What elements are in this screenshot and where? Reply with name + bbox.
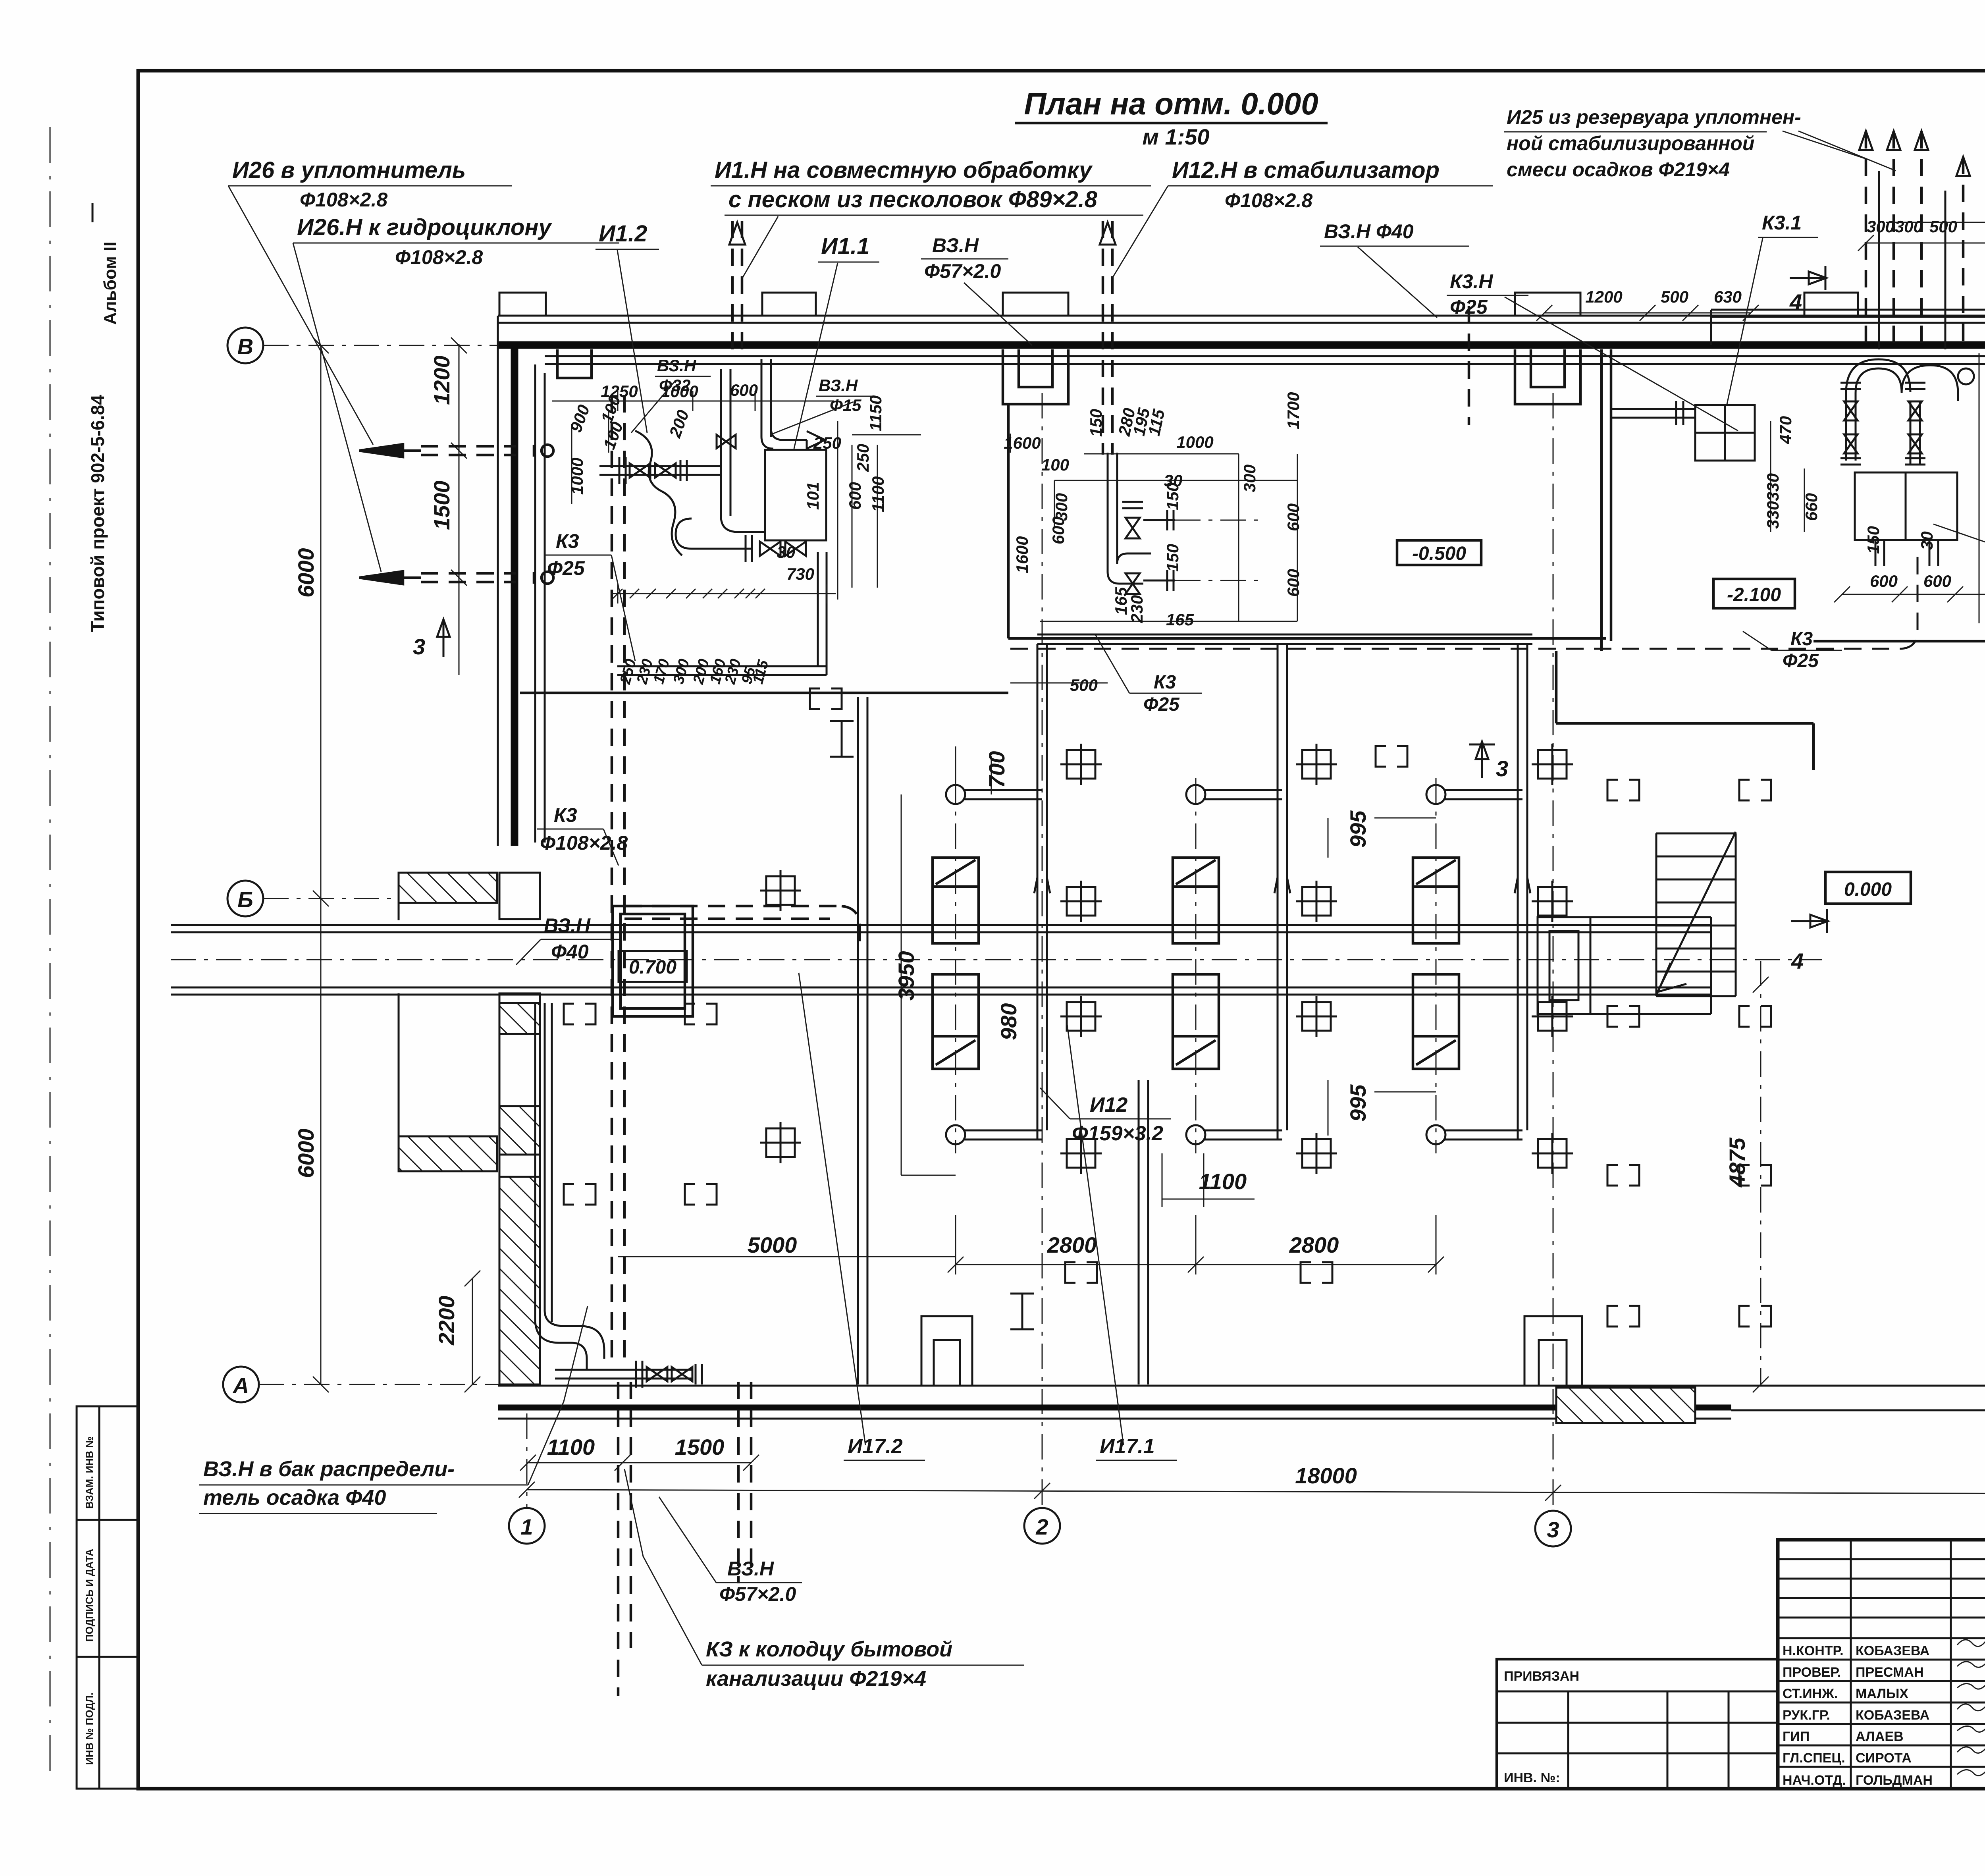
svg-text:500: 500 xyxy=(1929,217,1957,236)
svg-text:3950: 3950 xyxy=(894,951,919,1001)
svg-text:1600: 1600 xyxy=(1004,434,1041,452)
svg-text:101: 101 xyxy=(804,482,822,510)
svg-text:тель осадка Ф40: тель осадка Ф40 xyxy=(203,1486,386,1510)
svg-text:Ф25: Ф25 xyxy=(1450,296,1488,318)
svg-text:2: 2 xyxy=(1035,1514,1048,1539)
svg-text:ИНВ № ПОДЛ.: ИНВ № ПОДЛ. xyxy=(83,1693,95,1765)
svg-text:ВЗ.Н: ВЗ.Н xyxy=(819,376,858,395)
svg-text:600: 600 xyxy=(1284,569,1303,597)
svg-text:А: А xyxy=(232,1373,249,1398)
svg-text:Ф25: Ф25 xyxy=(547,557,585,579)
svg-text:250: 250 xyxy=(813,434,841,452)
svg-text:2800: 2800 xyxy=(1047,1232,1097,1257)
svg-text:ВЗ.Н: ВЗ.Н xyxy=(727,1558,774,1580)
svg-text:СИРОТА: СИРОТА xyxy=(1856,1751,1912,1766)
svg-text:Н.КОНТР.: Н.КОНТР. xyxy=(1783,1643,1844,1658)
svg-text:ВЗ.Н: ВЗ.Н xyxy=(932,234,979,256)
svg-text:500: 500 xyxy=(1661,287,1688,306)
svg-text:1100: 1100 xyxy=(547,1434,595,1460)
svg-text:300: 300 xyxy=(670,657,693,686)
svg-text:1150: 1150 xyxy=(866,395,885,431)
svg-text:К3: К3 xyxy=(554,804,577,826)
svg-text:ВЗ.Н Ф40: ВЗ.Н Ф40 xyxy=(1324,220,1414,243)
svg-text:3: 3 xyxy=(1496,756,1508,781)
svg-text:И17.2: И17.2 xyxy=(848,1435,903,1458)
svg-text:-0.500: -0.500 xyxy=(1412,543,1466,564)
svg-text:1000: 1000 xyxy=(1176,433,1213,451)
svg-text:Ф57×2.0: Ф57×2.0 xyxy=(924,260,1001,282)
svg-text:м 1:50: м 1:50 xyxy=(1142,124,1209,149)
svg-text:1200: 1200 xyxy=(429,355,454,405)
svg-text:1100: 1100 xyxy=(869,476,887,512)
svg-text:ГИП: ГИП xyxy=(1783,1729,1810,1744)
svg-text:1200: 1200 xyxy=(1585,287,1622,306)
svg-text:150: 150 xyxy=(1864,526,1883,554)
svg-text:980: 980 xyxy=(996,1003,1021,1040)
svg-text:300: 300 xyxy=(1240,465,1259,492)
svg-text:ВЗАМ. ИНВ №: ВЗАМ. ИНВ № xyxy=(83,1436,95,1509)
svg-text:Типовой проект 902-5-6.84: Типовой проект 902-5-6.84 xyxy=(87,395,108,632)
svg-text:И26 в уплотнитель: И26 в уплотнитель xyxy=(232,157,466,183)
svg-text:1: 1 xyxy=(520,1514,533,1539)
svg-text:МАЛЫХ: МАЛЫХ xyxy=(1856,1686,1908,1701)
svg-text:ИНВ. №:: ИНВ. №: xyxy=(1504,1770,1560,1785)
svg-text:Ф25: Ф25 xyxy=(1143,694,1180,715)
svg-text:4: 4 xyxy=(1791,949,1804,974)
svg-text:230: 230 xyxy=(1127,595,1146,623)
svg-text:И17.1: И17.1 xyxy=(1100,1435,1155,1458)
svg-text:с песком из песколовок Ф89×2.: с песком из песколовок Ф89×2.8 xyxy=(728,187,1098,212)
svg-text:Ф32: Ф32 xyxy=(659,376,691,395)
svg-text:И1.2: И1.2 xyxy=(599,221,647,247)
svg-text:Ф25: Ф25 xyxy=(1783,650,1819,671)
svg-text:Б: Б xyxy=(237,887,253,912)
svg-text:Ф108×2.8: Ф108×2.8 xyxy=(395,246,483,268)
svg-text:Ф108×2.8: Ф108×2.8 xyxy=(540,832,628,854)
svg-text:6000: 6000 xyxy=(293,548,318,598)
svg-text:600: 600 xyxy=(1923,572,1951,590)
svg-text:Ф40: Ф40 xyxy=(551,941,589,963)
svg-text:150: 150 xyxy=(1163,544,1182,572)
svg-text:660: 660 xyxy=(1802,493,1821,521)
svg-text:ПОДПИСЬ И ДАТА: ПОДПИСЬ И ДАТА xyxy=(83,1549,95,1642)
svg-text:1100: 1100 xyxy=(1199,1169,1247,1194)
svg-text:смеси осадков Ф219×4: смеси осадков Ф219×4 xyxy=(1507,158,1730,181)
svg-text:РУК.ГР.: РУК.ГР. xyxy=(1783,1708,1830,1723)
svg-text:ной стабилизированной: ной стабилизированной xyxy=(1507,132,1754,154)
svg-text:И12: И12 xyxy=(1090,1093,1127,1116)
svg-text:630: 630 xyxy=(1714,287,1742,306)
svg-text:6000: 6000 xyxy=(293,1128,318,1178)
svg-text:330: 330 xyxy=(1763,501,1782,529)
svg-text:Ф108×2.8: Ф108×2.8 xyxy=(300,189,387,211)
svg-text:ВЗ.Н: ВЗ.Н xyxy=(657,356,697,375)
svg-text:ГЛ.СПЕЦ.: ГЛ.СПЕЦ. xyxy=(1783,1751,1845,1766)
svg-text:В: В xyxy=(237,334,253,359)
svg-text:КОБАЗЕВА: КОБАЗЕВА xyxy=(1856,1643,1929,1658)
svg-text:Ф57×2.0: Ф57×2.0 xyxy=(719,1583,796,1605)
svg-text:30: 30 xyxy=(1918,531,1936,550)
svg-text:150: 150 xyxy=(1163,482,1182,510)
svg-text:18000: 18000 xyxy=(1295,1463,1357,1488)
svg-text:канализации Ф219×4: канализации Ф219×4 xyxy=(706,1667,926,1691)
svg-text:600: 600 xyxy=(730,381,758,399)
svg-text:4875: 4875 xyxy=(1725,1138,1750,1188)
svg-text:30: 30 xyxy=(777,543,796,561)
svg-text:100: 100 xyxy=(599,419,626,452)
svg-text:КЗ к колодцу бытовой: КЗ к колодцу бытовой xyxy=(706,1637,952,1661)
svg-text:600: 600 xyxy=(1284,503,1303,531)
svg-text:470: 470 xyxy=(1776,416,1795,444)
svg-text:2800: 2800 xyxy=(1289,1232,1339,1257)
svg-text:0.000: 0.000 xyxy=(1844,879,1892,900)
svg-text:5000: 5000 xyxy=(748,1232,797,1257)
svg-text:Ф108×2.8: Ф108×2.8 xyxy=(1225,189,1312,212)
svg-text:0.700: 0.700 xyxy=(629,957,676,978)
svg-text:300: 300 xyxy=(1895,217,1923,236)
svg-text:330: 330 xyxy=(1763,473,1782,501)
svg-text:ГОЛЬДМАН: ГОЛЬДМАН xyxy=(1856,1773,1933,1788)
svg-text:ВЗ.Н в бак распредели-: ВЗ.Н в бак распредели- xyxy=(203,1457,455,1481)
svg-text:1600: 1600 xyxy=(1013,536,1031,573)
svg-text:И1.Н на совместную обработ: И1.Н на совместную обработку xyxy=(715,157,1093,183)
svg-text:500: 500 xyxy=(1070,676,1098,694)
svg-text:СТ.ИНЖ.: СТ.ИНЖ. xyxy=(1783,1686,1838,1701)
svg-text:3: 3 xyxy=(413,634,425,659)
svg-text:НАЧ.ОТД.: НАЧ.ОТД. xyxy=(1783,1773,1846,1788)
svg-text:150: 150 xyxy=(1087,409,1105,437)
svg-text:600: 600 xyxy=(1049,517,1068,544)
svg-text:730: 730 xyxy=(786,565,814,583)
svg-text:1500: 1500 xyxy=(429,480,454,530)
svg-text:ПРЕСМАН: ПРЕСМАН xyxy=(1856,1665,1923,1680)
svg-text:600: 600 xyxy=(846,482,864,510)
svg-text:1000: 1000 xyxy=(568,458,586,495)
svg-text:ПРИВЯЗАН: ПРИВЯЗАН xyxy=(1504,1669,1579,1684)
svg-text:200: 200 xyxy=(665,407,692,440)
svg-text:3: 3 xyxy=(1547,1517,1559,1542)
svg-text:К3.1: К3.1 xyxy=(1762,212,1802,234)
svg-text:4: 4 xyxy=(1789,289,1802,314)
svg-text:План на отм. 0.000: План на отм. 0.000 xyxy=(1024,86,1318,121)
svg-text:ВЗ.Н: ВЗ.Н xyxy=(544,914,591,937)
svg-text:К3: К3 xyxy=(1790,629,1813,650)
svg-text:-2.100: -2.100 xyxy=(1727,584,1781,605)
svg-text:250: 250 xyxy=(854,444,872,472)
svg-text:И1.1: И1.1 xyxy=(821,233,869,259)
svg-text:И25 из резервуара уплотнен-: И25 из резервуара уплотнен- xyxy=(1507,106,1801,128)
svg-text:995: 995 xyxy=(1345,1084,1370,1122)
svg-text:Альбом II: Альбом II xyxy=(100,242,120,325)
svg-text:700: 700 xyxy=(984,751,1009,788)
svg-text:995: 995 xyxy=(1345,810,1370,848)
svg-text:600: 600 xyxy=(1870,572,1898,590)
svg-text:1700: 1700 xyxy=(1284,392,1303,429)
svg-text:2200: 2200 xyxy=(434,1296,459,1346)
svg-text:К3: К3 xyxy=(556,530,579,552)
svg-text:115: 115 xyxy=(750,658,772,686)
svg-text:И26.Н к гидроциклону: И26.Н к гидроциклону xyxy=(297,214,552,240)
svg-text:1500: 1500 xyxy=(675,1434,725,1460)
svg-text:Ф159×3.2: Ф159×3.2 xyxy=(1072,1122,1163,1145)
svg-text:100: 100 xyxy=(1041,455,1069,474)
svg-text:К3: К3 xyxy=(1154,672,1176,693)
svg-text:КОБАЗЕВА: КОБАЗЕВА xyxy=(1856,1708,1929,1723)
svg-text:И12.Н в стабилизатор: И12.Н в стабилизатор xyxy=(1172,157,1440,183)
svg-text:АЛАЕВ: АЛАЕВ xyxy=(1856,1729,1904,1744)
svg-text:300: 300 xyxy=(1867,217,1894,236)
svg-text:900: 900 xyxy=(566,402,593,435)
svg-text:165: 165 xyxy=(1166,610,1194,629)
svg-text:ПРОВЕР.: ПРОВЕР. xyxy=(1783,1665,1841,1680)
svg-text:К3.Н: К3.Н xyxy=(1450,270,1493,293)
